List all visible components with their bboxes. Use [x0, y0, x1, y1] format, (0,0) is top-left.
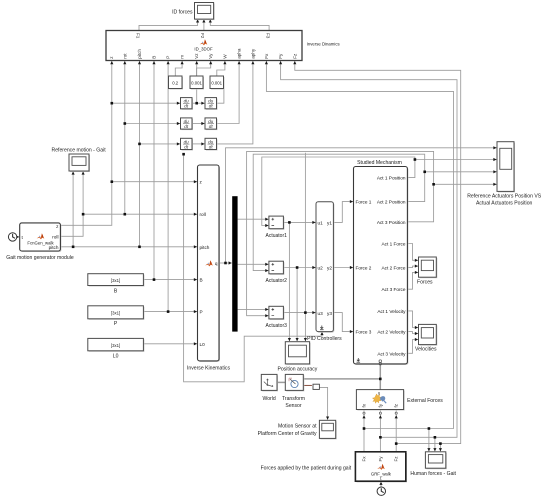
- svg-text:roll: roll: [200, 212, 206, 217]
- svg-text:Act 3 Velocity: Act 3 Velocity: [377, 351, 406, 356]
- svg-text:Forces applied by the patient: Forces applied by the patient during gai…: [261, 466, 352, 472]
- svg-text:u1: u1: [318, 221, 324, 226]
- svg-text:Human forces - Gait: Human forces - Gait: [410, 471, 456, 477]
- svg-text:[3x1]: [3x1]: [111, 311, 120, 316]
- svg-text:m: m: [180, 55, 185, 59]
- svg-text:P: P: [200, 310, 203, 315]
- svg-text:Act 3 Force: Act 3 Force: [382, 287, 406, 292]
- svg-text:apha: apha: [237, 48, 242, 59]
- svg-text:External Forces: External Forces: [407, 398, 443, 404]
- svg-text:P: P: [114, 321, 118, 327]
- svg-text:Vz: Vz: [194, 53, 199, 59]
- svg-text:Velocities: Velocities: [415, 347, 437, 353]
- svg-text:u3: u3: [318, 311, 324, 316]
- svg-text:y1: y1: [327, 221, 332, 226]
- svg-text:FcnGen_walk: FcnGen_walk: [27, 241, 54, 246]
- svg-text:Act 2 Force: Act 2 Force: [382, 266, 406, 271]
- svg-text:pitch: pitch: [137, 49, 142, 59]
- svg-text:0.2: 0.2: [172, 81, 179, 86]
- svg-text:L0: L0: [113, 354, 119, 360]
- svg-text:[3x1]: [3x1]: [111, 278, 120, 283]
- svg-text:Fx: Fx: [362, 456, 367, 462]
- svg-text:y3: y3: [327, 311, 332, 316]
- svg-text:roll: roll: [52, 235, 58, 240]
- svg-text:0.001: 0.001: [211, 81, 222, 86]
- svg-text:pitch: pitch: [200, 245, 210, 250]
- svg-text:B: B: [114, 288, 118, 294]
- svg-text:Act 1 Velocity: Act 1 Velocity: [377, 309, 406, 314]
- svg-text:World: World: [262, 396, 275, 402]
- svg-text:F3: F3: [265, 33, 270, 39]
- svg-text:Transform: Transform: [282, 396, 305, 402]
- svg-text:W: W: [222, 54, 227, 59]
- svg-text:Studied Mechanism: Studied Mechanism: [357, 160, 402, 166]
- svg-text:F2: F2: [200, 33, 205, 39]
- svg-text:Gait motion generator module: Gait motion generator module: [6, 255, 74, 261]
- svg-text:Inverse Kinematics: Inverse Kinematics: [187, 365, 230, 371]
- svg-text:F1: F1: [135, 33, 140, 39]
- svg-text:Fz: Fz: [292, 53, 297, 59]
- svg-text:q: q: [215, 261, 218, 266]
- svg-text:Act 3 Position: Act 3 Position: [377, 220, 406, 225]
- svg-text:Actuator3: Actuator3: [265, 323, 287, 329]
- svg-text:aphy: aphy: [250, 48, 255, 59]
- svg-text:L0: L0: [200, 342, 206, 347]
- svg-text:Inverse Dinamics: Inverse Dinamics: [307, 42, 340, 47]
- svg-text:pitch: pitch: [49, 245, 59, 250]
- svg-text:B: B: [200, 278, 203, 283]
- svg-text:[3x1]: [3x1]: [111, 343, 120, 348]
- svg-text:rot: rot: [122, 53, 127, 59]
- svg-text:0.001: 0.001: [191, 81, 202, 86]
- svg-text:y2: y2: [327, 266, 332, 271]
- svg-text:u2: u2: [318, 266, 324, 271]
- svg-text:Fy: Fy: [278, 53, 283, 59]
- svg-text:Fz: Fz: [394, 456, 399, 462]
- svg-text:PID Controllers: PID Controllers: [307, 336, 342, 342]
- svg-text:Actuator1: Actuator1: [265, 233, 287, 239]
- svg-text:Act 2 Velocity: Act 2 Velocity: [377, 330, 406, 335]
- svg-text:Fy: Fy: [378, 456, 383, 462]
- svg-text:Reference Actuators Position V: Reference Actuators Position VS: [467, 193, 542, 199]
- svg-text:P: P: [166, 56, 171, 59]
- svg-text:Actuator2: Actuator2: [265, 278, 287, 284]
- svg-text:Position accuracy: Position accuracy: [277, 367, 317, 373]
- svg-text:Platform Center of Gravity: Platform Center of Gravity: [258, 431, 317, 437]
- svg-text:Act 1 Force: Act 1 Force: [382, 242, 406, 247]
- svg-text:Fx: Fx: [264, 53, 269, 59]
- svg-text:Act 2 Position: Act 2 Position: [377, 200, 406, 205]
- svg-text:Force 2: Force 2: [356, 266, 372, 271]
- svg-text:Motion Sensor at: Motion Sensor at: [278, 424, 317, 430]
- svg-text:B: B: [152, 56, 157, 59]
- svg-text:Force 1: Force 1: [356, 200, 372, 205]
- svg-text:Force 3: Force 3: [356, 330, 372, 335]
- svg-text:Act 1 Position: Act 1 Position: [377, 176, 406, 181]
- svg-text:Forces: Forces: [417, 279, 433, 285]
- svg-text:ID_3DOF: ID_3DOF: [194, 47, 213, 52]
- svg-text:u: u: [378, 391, 381, 396]
- svg-text:Vy: Vy: [208, 53, 213, 59]
- svg-text:Reference motion - Gait: Reference motion - Gait: [52, 148, 107, 154]
- svg-text:ID forces: ID forces: [172, 10, 193, 16]
- svg-text:Actual Actuators Position: Actual Actuators Position: [476, 200, 533, 206]
- svg-text:Sensor: Sensor: [285, 403, 301, 409]
